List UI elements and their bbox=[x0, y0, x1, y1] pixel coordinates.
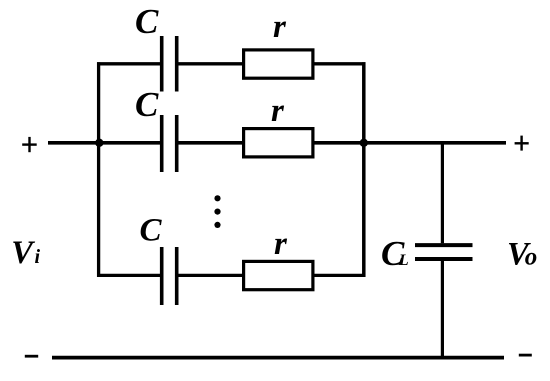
wire load capacitor bottom lead bbox=[441, 261, 444, 358]
wire main top rail right segment bbox=[313, 141, 506, 145]
resistor r2 body (middle branch) bbox=[244, 129, 313, 157]
svg-text:r: r bbox=[271, 93, 285, 129]
svg-text:C: C bbox=[140, 213, 163, 249]
svg-text:CL: CL bbox=[381, 234, 409, 273]
svg-text:C: C bbox=[135, 85, 159, 124]
wire main top rail middle segment bbox=[177, 141, 244, 145]
svg-text:C: C bbox=[135, 2, 159, 41]
plus sign left bbox=[22, 143, 37, 145]
minus sign left bbox=[25, 355, 38, 358]
capacitor C3 plates (bottom branch) bbox=[160, 247, 164, 305]
wire bottom branch left bbox=[97, 274, 162, 277]
capacitor C2 plates (middle branch) bbox=[160, 115, 164, 172]
wire top branch left bbox=[97, 62, 162, 65]
wire main top rail left segment bbox=[48, 141, 162, 145]
svg-text:r: r bbox=[273, 9, 287, 45]
ellipsis dots (more branches) bbox=[214, 195, 220, 201]
svg-text:Vi: Vi bbox=[11, 235, 40, 271]
svg-text:r: r bbox=[274, 226, 288, 262]
capacitor CL bottom plate bbox=[415, 257, 473, 261]
wire right vertical bus bbox=[362, 62, 366, 277]
svg-text:Vo: Vo bbox=[507, 237, 537, 273]
resistor r3 body (bottom branch) bbox=[244, 261, 313, 289]
node junction dot right bbox=[360, 139, 368, 147]
wire bottom branch right bbox=[313, 274, 366, 277]
capacitor C1 plates (top branch) bbox=[160, 36, 164, 92]
wire top branch middle bbox=[177, 62, 244, 65]
wire load capacitor top lead bbox=[441, 143, 444, 243]
wire top branch right bbox=[313, 62, 366, 65]
wire left vertical bus bbox=[97, 62, 100, 277]
capacitor CL top plate bbox=[415, 243, 473, 247]
plus sign right bbox=[515, 142, 529, 144]
wire bottom rail bbox=[52, 356, 504, 360]
minus sign right bbox=[519, 354, 532, 357]
node junction dot left bbox=[95, 139, 103, 147]
wire bottom branch middle bbox=[177, 274, 244, 277]
resistor r1 body (top branch) bbox=[244, 50, 313, 78]
